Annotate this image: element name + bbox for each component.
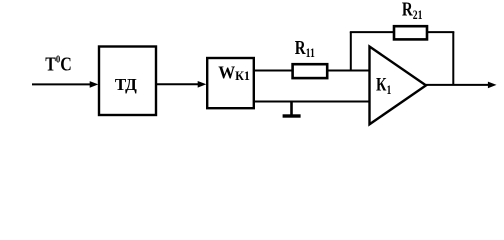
ground: [283, 102, 301, 118]
block TD (thermal sensor): [99, 47, 156, 116]
resistor R11: [293, 36, 328, 78]
wire input arrow to TD: [32, 81, 98, 88]
wire feedback left vertical: [350, 32, 352, 70]
block WK1 (transfer function): [207, 58, 254, 108]
node T0C input label: [45, 53, 72, 75]
wire feedback top right segment: [427, 31, 454, 33]
svg-text:WК1: WК1: [218, 63, 250, 83]
wire output with arrow: [426, 82, 497, 89]
resistor R21: [394, 0, 427, 39]
svg-text:ТД: ТД: [115, 75, 137, 94]
wire WK1 upper output to R11: [254, 70, 293, 72]
svg-text:К1: К1: [376, 74, 392, 97]
wire feedback right vertical: [452, 32, 454, 85]
wire R11 to op-amp input (node with feedback): [327, 70, 369, 72]
wire feedback top left segment: [350, 31, 394, 33]
wire TD to WK1 with arrow: [156, 81, 206, 88]
op-amp K1: [370, 47, 427, 125]
svg-text:R21: R21: [402, 0, 423, 22]
wire WK1 lower output to op-amp: [254, 101, 370, 103]
svg-text:T0C: T0C: [45, 53, 72, 75]
svg-text:R11: R11: [295, 36, 315, 61]
